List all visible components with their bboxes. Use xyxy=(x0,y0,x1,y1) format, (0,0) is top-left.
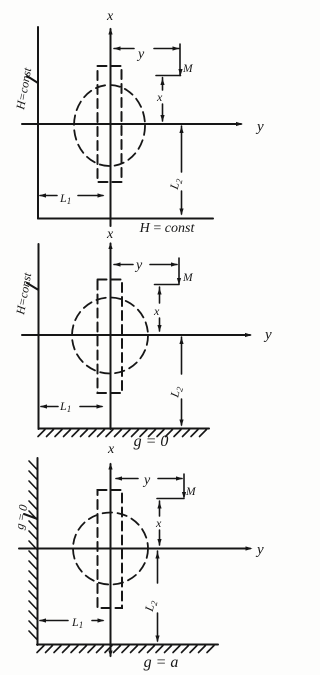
svg-text:M: M xyxy=(182,272,194,284)
svg-text:L1: L1 xyxy=(71,615,83,630)
svg-text:x: x xyxy=(106,9,114,24)
svg-text:y: y xyxy=(134,258,143,273)
svg-text:g = a: g = a xyxy=(144,654,179,671)
svg-text:L1: L1 xyxy=(59,191,71,206)
svg-text:H=const: H=const xyxy=(13,66,34,112)
svg-text:g = 0: g = 0 xyxy=(134,433,169,450)
svg-text:y: y xyxy=(136,47,145,62)
svg-text:y: y xyxy=(142,473,151,488)
svg-text:x: x xyxy=(153,304,160,318)
svg-text:y: y xyxy=(263,327,272,343)
svg-text:y: y xyxy=(255,119,264,135)
svg-text:x: x xyxy=(156,90,163,104)
svg-text:L2: L2 xyxy=(167,176,185,192)
svg-text:H = const: H = const xyxy=(139,221,196,236)
svg-text:L2: L2 xyxy=(167,384,185,400)
svg-text:M: M xyxy=(185,486,197,498)
svg-text:x: x xyxy=(155,516,162,530)
svg-text:M: M xyxy=(182,63,194,75)
svg-text:y: y xyxy=(255,542,264,558)
svg-text:x: x xyxy=(106,227,114,242)
svg-text:x: x xyxy=(107,442,115,457)
svg-text:H=const: H=const xyxy=(13,271,34,317)
svg-text:L1: L1 xyxy=(59,399,71,414)
svg-text:L2: L2 xyxy=(142,598,160,614)
svg-text:g = 0: g = 0 xyxy=(12,504,30,531)
